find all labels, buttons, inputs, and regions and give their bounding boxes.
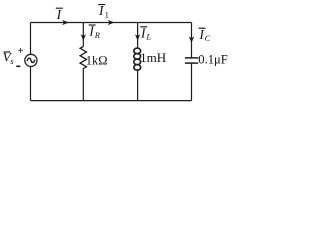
- voltage source Vs (AC): [25, 54, 37, 66]
- svg-text:1kΩ: 1kΩ: [86, 53, 108, 67]
- arrow I1 (right, on top wire): [108, 20, 115, 25]
- wire resistor branch vertical: [82, 23, 84, 101]
- svg-text:1mH: 1mH: [140, 50, 166, 65]
- polarity minus: [16, 65, 20, 67]
- svg-text:L: L: [145, 32, 151, 42]
- label IL (overline): [140, 25, 151, 41]
- label IR (overline): [88, 24, 100, 40]
- arrow I (right, on top wire): [62, 20, 69, 25]
- svg-text:R: R: [94, 30, 101, 40]
- inductor L 1mH coil loops: [134, 48, 141, 70]
- svg-text:+: +: [18, 46, 24, 57]
- arrow IL (down, inductor branch): [135, 34, 140, 41]
- label I (overline): [56, 7, 63, 22]
- label IC (overline): [198, 27, 210, 43]
- capacitor C 0.1uF plates: [185, 58, 198, 63]
- svg-text:s: s: [10, 56, 14, 66]
- arrow IR (down, resistor branch): [81, 34, 86, 41]
- wire inductor branch vertical: [137, 23, 139, 101]
- svg-text:I: I: [56, 7, 63, 22]
- svg-text:0.1μF: 0.1μF: [198, 52, 228, 66]
- svg-text:C: C: [205, 33, 211, 43]
- wire bottom horizontal: [31, 100, 192, 102]
- svg-text:1: 1: [105, 9, 109, 19]
- label I1 (overline): [98, 3, 109, 19]
- label Vs source: [3, 46, 24, 66]
- arrow IC (down, capacitor branch): [189, 36, 194, 43]
- wire left vertical: [30, 23, 32, 101]
- wire right vertical (capacitor branch): [191, 23, 193, 101]
- resistor R 1kohm zigzag: [80, 47, 86, 70]
- wire top horizontal: [31, 22, 192, 24]
